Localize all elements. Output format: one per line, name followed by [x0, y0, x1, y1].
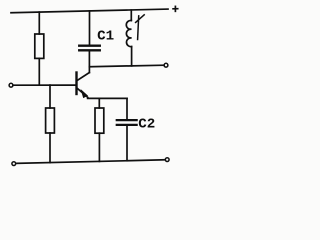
resistor R2 [46, 108, 55, 133]
svg-text:C2: C2 [138, 116, 155, 132]
wire R3 top [98, 98, 100, 108]
inductor L1 top wire [130, 10, 132, 20]
wire R1 top [38, 12, 40, 34]
wire emitter [88, 97, 127, 99]
wire collector vertical [88, 51, 90, 72]
terminal input left [9, 83, 13, 87]
resistor R3 [95, 108, 104, 133]
inductor L1 [126, 20, 131, 46]
resistor R1 [35, 34, 44, 58]
wire C2 top [126, 98, 128, 119]
wire R1 bottom [38, 58, 40, 85]
wire R3 bottom [98, 133, 100, 161]
inductor L1 arrow [136, 15, 145, 40]
wire C2 bottom [126, 126, 128, 161]
svg-text:C1: C1 [97, 28, 114, 44]
wire R2 bottom [49, 133, 51, 163]
wire L1 bottom [131, 47, 133, 66]
wire top supply rail [11, 9, 168, 13]
terminal ground right [165, 158, 169, 162]
wire C1 top [89, 11, 91, 45]
wire base [13, 84, 76, 86]
terminal output right [164, 63, 168, 67]
label + supply [173, 6, 178, 11]
capacitor C1 [79, 46, 100, 51]
wire R2 top [49, 85, 51, 108]
transistor Q1 [77, 73, 90, 98]
terminal ground left [12, 162, 16, 166]
capacitor C2 [117, 120, 137, 125]
wire bottom ground rail [16, 160, 165, 164]
wire collector output [89, 65, 164, 67]
